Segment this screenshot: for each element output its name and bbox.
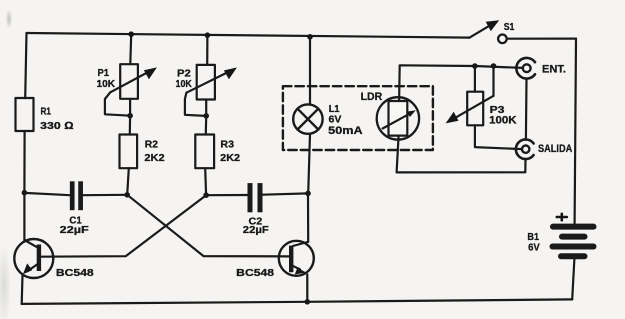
wire S1 to right rail xyxy=(507,37,576,39)
svg-text:BC548: BC548 xyxy=(56,267,94,279)
wire C2 right to lamp branch xyxy=(263,193,308,194)
transistor Q1 xyxy=(14,239,53,304)
label B1 xyxy=(527,231,539,253)
label Q2 BC548 xyxy=(236,267,274,279)
label S1 xyxy=(504,21,515,33)
wire P2 top drop xyxy=(206,35,208,65)
label P3 xyxy=(489,104,517,127)
svg-text:SALIDA: SALIDA xyxy=(538,143,572,155)
svg-text:2K2: 2K2 xyxy=(144,152,164,164)
label SALIDA xyxy=(538,143,572,155)
wire P1 to R2 xyxy=(129,99,132,135)
node P1 wiper junction xyxy=(127,113,133,119)
resistor R1 xyxy=(16,98,34,131)
switch S1 xyxy=(470,20,507,43)
wire node to Q1 collector xyxy=(24,193,37,248)
label L1 xyxy=(328,104,362,137)
label battery plus xyxy=(557,214,567,220)
wire right rail down to battery xyxy=(575,39,576,224)
node B xyxy=(203,192,209,198)
label R1 value xyxy=(40,107,73,132)
label C2 xyxy=(243,215,270,236)
wire P3 wiper drop xyxy=(492,66,494,96)
wire lamp top riser xyxy=(309,37,311,105)
wire P3 bottom to SALIDA xyxy=(475,125,522,149)
svg-text:R3: R3 xyxy=(220,139,234,151)
svg-text:P1: P1 xyxy=(98,68,110,79)
label LDR xyxy=(361,91,383,103)
wire node A diagonal to Q2 base xyxy=(127,195,289,257)
wire P2 to R3 xyxy=(205,100,208,135)
label Q1 BC548 xyxy=(56,267,94,279)
svg-text:P2: P2 xyxy=(177,69,191,80)
wire LDR bottom to salida return xyxy=(397,136,526,173)
node P3 wiper tap xyxy=(491,63,497,69)
wire Q2 collector riser xyxy=(307,193,309,241)
node A xyxy=(124,192,130,198)
wire left drop to R1 xyxy=(25,33,26,98)
svg-text:S1: S1 xyxy=(504,21,515,33)
battery B1 xyxy=(553,227,594,257)
svg-text:ENT.: ENT. xyxy=(542,63,566,75)
label P2 xyxy=(176,69,193,90)
potentiometer P3 xyxy=(446,92,494,126)
svg-text:6V: 6V xyxy=(528,241,540,253)
wire ENT to SALIDA vertical xyxy=(525,79,528,140)
transistor Q2 xyxy=(279,241,314,302)
wire node to C1 left xyxy=(24,193,70,195)
svg-text:10K: 10K xyxy=(176,79,193,90)
svg-text:22µF: 22µF xyxy=(60,224,90,236)
svg-text:BC548: BC548 xyxy=(236,267,274,279)
potentiometer P2 xyxy=(185,65,237,116)
label ENT xyxy=(542,63,566,75)
wire node B to C2 left xyxy=(206,194,247,196)
node R1/C1 junction xyxy=(22,190,28,196)
node top rail P1 xyxy=(128,31,134,37)
jack ENT xyxy=(516,58,535,79)
svg-text:LDR: LDR xyxy=(361,91,383,103)
svg-text:10K: 10K xyxy=(97,79,116,90)
wire R1 bottom to node xyxy=(23,131,25,193)
wire ENT rail with P3 taps xyxy=(475,66,523,68)
dashed enclosure lamp+LDR xyxy=(283,86,433,150)
node lamp/C2/collector xyxy=(305,191,311,197)
lamp L1 xyxy=(293,104,322,133)
label R3 xyxy=(220,139,240,164)
potentiometer P1 xyxy=(105,64,157,115)
svg-text:2K2: 2K2 xyxy=(220,152,240,164)
LDR xyxy=(377,97,419,139)
svg-text:22µF: 22µF xyxy=(243,224,270,236)
svg-text:100K: 100K xyxy=(489,115,517,127)
svg-text:R1: R1 xyxy=(41,107,52,118)
svg-text:6V: 6V xyxy=(329,114,342,126)
wire P3 top drop xyxy=(474,66,476,92)
node P2 wiper junction xyxy=(203,113,209,119)
wire lamp bottom to node xyxy=(308,134,310,194)
jack SALIDA xyxy=(516,139,534,159)
svg-text:R2: R2 xyxy=(145,139,158,151)
capacitor C1 xyxy=(72,181,80,210)
label P1 xyxy=(97,68,116,90)
wire R2 bottom to node A xyxy=(127,168,129,195)
node top rail P2 xyxy=(205,32,211,38)
svg-text:50mA: 50mA xyxy=(328,125,362,137)
wire battery bottom to bottom rail xyxy=(572,259,574,300)
node bottom rail Q2 emitter xyxy=(305,299,311,305)
resistor R3 xyxy=(195,135,214,169)
wire P1 top drop xyxy=(129,34,132,64)
resistor R2 xyxy=(120,135,138,169)
wire C1 right to node A xyxy=(83,194,127,197)
node P3 top tap xyxy=(472,63,478,69)
wire top rail xyxy=(27,33,470,38)
capacitor C2 xyxy=(250,183,260,212)
wire R3 bottom to node B xyxy=(204,168,207,195)
node top rail lamp xyxy=(307,34,313,40)
svg-text:330 Ω: 330 Ω xyxy=(40,120,73,132)
wire node B diagonal to Q1 base xyxy=(41,195,206,257)
wire LDR top riser and link to ENT rail xyxy=(399,65,475,101)
wire bottom rail xyxy=(22,299,573,304)
label C1 xyxy=(60,215,90,236)
label R2 xyxy=(144,139,164,164)
